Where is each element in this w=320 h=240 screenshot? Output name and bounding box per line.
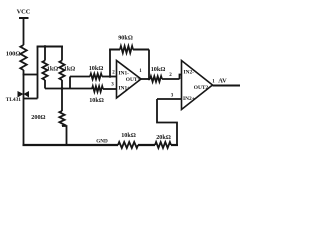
svg-text:IN2-: IN2-: [184, 70, 195, 76]
svg-text:IN2+: IN2+: [183, 96, 195, 102]
svg-text:10kΩ: 10kΩ: [121, 132, 136, 139]
svg-text:VCC: VCC: [17, 9, 31, 16]
svg-text:200Ω: 200Ω: [31, 114, 45, 121]
svg-text:20kΩ: 20kΩ: [156, 134, 171, 141]
svg-text:AV: AV: [218, 78, 227, 85]
svg-text:10kΩ: 10kΩ: [151, 66, 166, 73]
svg-text:IN1-: IN1-: [119, 71, 130, 77]
svg-text:IN1+: IN1+: [119, 86, 131, 92]
svg-text:OUT2: OUT2: [194, 85, 209, 91]
svg-text:10kΩ: 10kΩ: [89, 97, 104, 104]
svg-text:TL431: TL431: [6, 97, 22, 103]
svg-text:90kΩ: 90kΩ: [118, 35, 133, 42]
svg-text:100Ω: 100Ω: [6, 51, 21, 58]
svg-text:GND: GND: [96, 139, 108, 145]
svg-text:10kΩ: 10kΩ: [89, 65, 104, 72]
svg-text:OUT1: OUT1: [126, 77, 141, 83]
svg-text:1kΩ: 1kΩ: [64, 66, 76, 73]
svg-text:1kΩ: 1kΩ: [47, 66, 59, 73]
